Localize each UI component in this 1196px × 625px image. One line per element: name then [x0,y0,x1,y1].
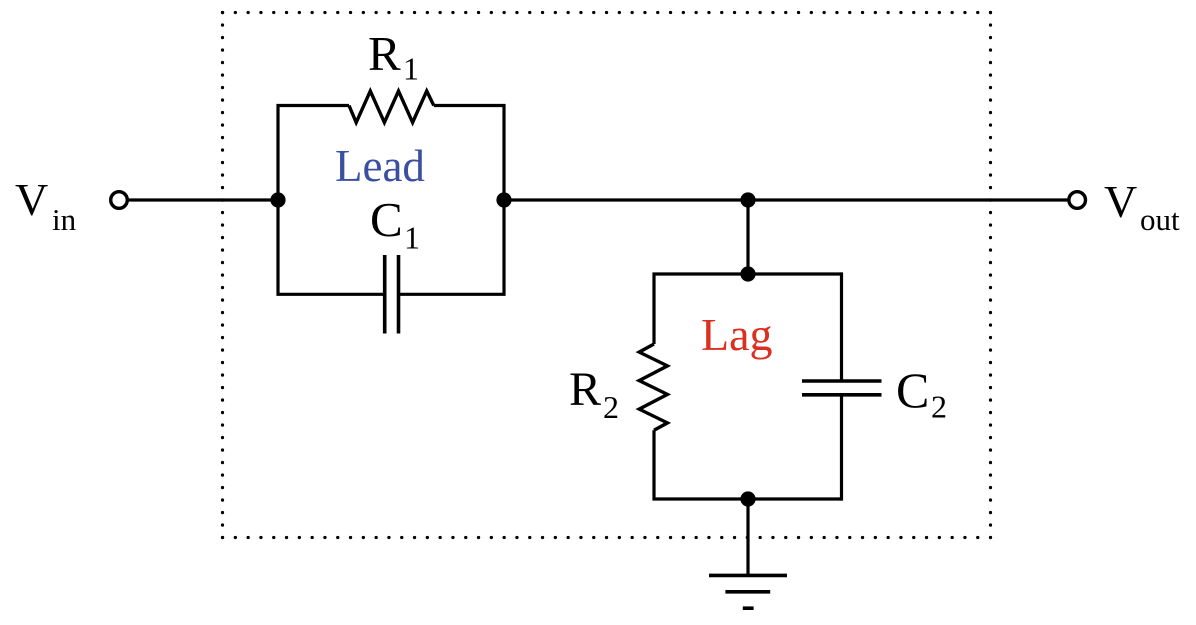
dotted boundary box [223,13,991,538]
wire main to Vout [504,198,1068,201]
wire lead top branch right, right vertical, bottom branch right [399,106,505,295]
svg-text:1: 1 [403,51,419,87]
node input junction [270,192,285,207]
node tap junction on main wire [740,192,755,207]
svg-text:2: 2 [603,389,619,425]
wire lag top branch and left vertical upper [654,274,842,344]
wire lag left vertical lower and bottom branch [654,430,842,499]
terminal Vin [111,192,128,209]
svg-text:2: 2 [931,389,947,425]
node output of lead section [496,192,511,207]
wire lead-network left vertical and top branch left [278,106,385,295]
svg-text:in: in [52,202,77,237]
svg-text:V: V [1104,176,1137,227]
svg-text:out: out [1140,202,1180,237]
node lag bottom junction [740,491,755,506]
svg-text:Lead: Lead [335,141,425,191]
svg-text:C: C [370,192,403,247]
resistor R2 [639,344,667,430]
wire to ground [746,499,749,575]
resistor R1 [349,91,434,123]
svg-text:C: C [896,362,929,418]
node lag top junction [740,266,755,281]
terminal Vout [1069,192,1086,209]
svg-text:R: R [368,26,401,81]
capacitor C1 [383,255,387,334]
svg-text:1: 1 [404,220,420,256]
ground [709,574,787,578]
svg-text:R: R [569,363,601,416]
wire Vin to input node [129,198,278,201]
svg-text:V: V [15,174,48,225]
wire lag right vertical upper [840,272,843,381]
svg-text:Lag: Lag [701,309,773,360]
wire lag right vertical lower [840,395,843,501]
capacitor C2 [802,379,882,383]
wire tap stub down [746,200,749,274]
